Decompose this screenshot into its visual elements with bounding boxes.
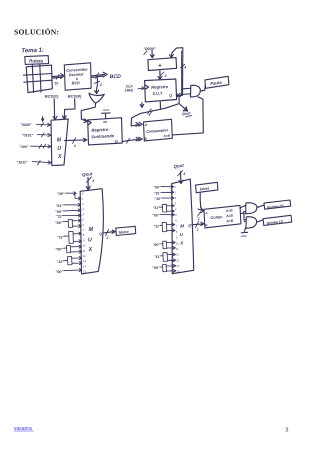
svg-text:4: 4 [91,179,94,183]
svg-text:13: 13 [176,258,179,262]
svg-text:10: 10 [55,82,59,86]
svg-text:7: 7 [83,228,85,232]
svg-text:+Vcc: +Vcc [240,234,247,238]
svg-text:Bomba (0): Bomba (0) [267,204,285,210]
wire or-gate output to registro sustraendo clock [81,103,95,121]
svg-text:M: M [57,138,62,144]
wire U5 to Bomba(1) [257,220,263,222]
block Convertidor Decimal a BCD [64,63,91,90]
svg-text:4: 4 [175,207,177,211]
svg-text:"11": "11" [153,225,160,229]
wire mux M2 Q to Motor bus 2 [99,226,135,240]
svg-text:2: 2 [197,217,200,221]
svg-text:2: 2 [175,196,177,200]
svg-text:9: 9 [83,238,85,242]
svg-text:4: 4 [82,212,84,216]
svg-text:Registro: Registro [91,127,109,133]
svg-text:BCD(1): BCD(1) [45,94,59,99]
svg-text:S.U.T.: S.U.T. [152,90,163,95]
block Bomba(0) [264,200,291,209]
svg-text:11: 11 [176,247,179,251]
svg-text:3: 3 [285,427,288,433]
svg-text:4: 4 [164,74,167,78]
svg-text:M: M [180,223,184,228]
mux M1 4:1 [51,119,68,166]
svg-text:5: 5 [83,218,85,222]
svg-text:"1011": "1011" [16,160,27,164]
svg-text:M: M [89,227,94,233]
svg-text:"00": "00" [57,192,65,196]
junction arrow at mux top-left [42,117,44,120]
svg-text:"10": "10" [154,197,162,201]
svg-text:8: 8 [176,230,178,234]
svg-text:A>B: A>B [225,219,234,224]
svg-text:U: U [57,146,61,152]
svg-text:"00": "00" [55,270,63,274]
adder U2 [148,58,177,71]
svg-text:"00": "00" [152,214,160,218]
wire Q node down to comparador A bus 4 [131,96,179,126]
svg-text:U: U [88,237,92,243]
svg-text:"00": "00" [55,248,63,252]
svg-text:BCD(0): BCD(0) [68,94,82,99]
svg-text:X: X [88,247,93,253]
block Registro Sustraendo [88,118,123,145]
svg-text:"00": "00" [55,210,63,214]
svg-text:"0000": "0000" [20,123,32,127]
svg-text:0: 0 [174,185,176,189]
wire BCD(0) select to mux M1 [64,99,75,118]
block Pauta [205,76,229,88]
svg-text:14: 14 [177,264,180,268]
svg-text:12: 12 [83,254,86,258]
svg-text:+: + [158,63,162,70]
svg-text:4: 4 [99,83,102,87]
svg-text:5: 5 [175,213,177,217]
svg-text:4: 4 [182,172,185,176]
mux M3 16:1 [172,179,194,274]
svg-text:Q: Q [99,232,102,236]
mux M3 pin numbers 0-15 [174,185,180,274]
svg-text:Tema 1:: Tema 1: [21,48,44,55]
svg-text:"01": "01" [154,192,162,196]
mux M2 pin numbers 0-15 [82,192,87,274]
wire register SUT bottom joins bus [159,102,161,110]
power +Vcc to gate U5 [241,227,247,233]
mux M2 16:1 [80,189,103,274]
block Bomba(1) [263,215,292,225]
svg-text:Comp.: Comp. [210,214,223,220]
and-gate U5 [246,217,257,229]
svg-text:7: 7 [176,224,178,228]
svg-text:X: X [57,154,62,160]
or-gate U1 [89,93,104,103]
svg-text:1: 1 [174,190,176,194]
svg-text:A<B: A<B [225,208,234,213]
block Nivel [196,182,218,192]
svg-text:10: 10 [176,241,179,245]
svg-text:0: 0 [82,192,84,196]
svg-text:U: U [180,232,184,237]
svg-text:A: A [204,211,207,215]
and-gate U3 [191,85,201,97]
block Comp [204,205,241,228]
svg-text:A=B: A=B [225,214,234,219]
svg-text:"0000": "0000" [143,46,156,51]
svg-text:3: 3 [82,207,84,211]
svg-text:+Vcc: +Vcc [102,108,109,112]
svg-text:12: 12 [176,253,179,257]
and-gate U4 [246,203,257,214]
wire BCD(1) select to mux M1 [53,99,56,119]
svg-text:1: 1 [82,197,84,201]
svg-text:3: 3 [175,202,177,206]
svg-text:4: 4 [183,66,186,70]
svg-text:2: 2 [106,236,109,240]
wire U4 to Bomba(0) [257,205,264,207]
svg-text:"11": "11" [154,255,161,259]
svg-text:2: 2 [82,202,84,206]
svg-text:Qout: Qout [82,171,93,177]
block Motor [116,226,136,235]
block Ruleta grid [26,65,52,92]
block Registro S.U.T. [145,79,177,102]
wire Qout arrow from first stage [180,104,188,111]
wire A=B split to gate bubbles [241,213,244,220]
wire Q node to and-gate [183,87,191,90]
svg-text:A: A [144,123,148,127]
svg-text:13: 13 [83,259,86,263]
wire BCD down to or-gate [96,77,97,92]
svg-text:6: 6 [175,219,177,223]
block Ruleta label box [25,56,49,65]
svg-text:"00": "00" [152,266,160,270]
wire A<B to and-gate U4 [241,205,246,207]
wire Nivel to comparator A bus 2 [200,193,202,210]
power +Vcc for sustraendo en [102,113,110,118]
svg-text:"00": "00" [153,186,161,190]
svg-text:9: 9 [176,236,178,240]
wire sustraendo Q to comparador B bus 4 [122,139,137,141]
svg-text:Q: Q [188,224,191,228]
svg-text:"11": "11" [153,206,160,210]
wire mux M1 to registro sustraendo bus 4 [65,139,85,142]
svg-text:11: 11 [83,249,86,253]
svg-text:Q: Q [115,139,118,143]
wire ruleta to converter, bus 10 [53,76,63,78]
svg-text:2: 2 [196,228,199,232]
svg-text:en: en [103,120,107,124]
svg-text:X: X [179,241,184,246]
svg-text:Sustraendo: Sustraendo [91,133,115,139]
svg-text:Qout: Qout [173,163,184,169]
svg-text:BCD: BCD [72,81,81,85]
svg-text:Ruleta: Ruleta [29,58,43,63]
svg-text:A=B: A=B [162,134,171,139]
svg-text:10: 10 [83,244,86,248]
wire BCD output bus 4 [91,74,104,77]
svg-text:6: 6 [83,223,85,227]
svg-text:Pauta: Pauta [210,80,223,87]
svg-text:B: B [205,223,208,227]
svg-text:"00": "00" [153,243,161,247]
svg-text:4: 4 [73,144,76,148]
block Comparador A=B [144,119,173,141]
wire feedback register Q to adder bus 4 [171,48,182,96]
svg-text:Registro: Registro [151,84,169,90]
svg-text:BCD: BCD [109,74,121,80]
wire comparador A=B output up to and-gate [172,97,203,135]
svg-text:SOLUCIÓN:: SOLUCIÓN: [14,27,59,37]
svg-text:"100": "100" [19,145,29,149]
svg-text:Q: Q [169,94,172,98]
svg-text:1MHz: 1MHz [125,88,134,92]
svg-text:8: 8 [83,233,85,237]
wire adder output to registro SUT bus 4 [158,71,162,80]
wire and-gate to Pauta [200,85,205,91]
svg-text:"0101": "0101" [22,133,34,137]
svg-text:"00": "00" [55,221,63,225]
svg-text:"01": "01" [56,204,64,208]
svg-text:14: 14 [83,264,86,268]
